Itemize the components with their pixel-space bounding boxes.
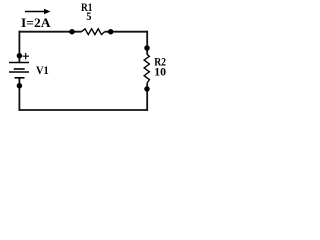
plate short bottom bbox=[15, 77, 25, 79]
resistor R2 bbox=[144, 54, 149, 83]
plus sign bbox=[23, 53, 30, 60]
node dot R1 left bbox=[69, 29, 75, 35]
resistor R1 bbox=[82, 29, 105, 35]
wire right upper bbox=[146, 31, 148, 55]
node dot R1 right bbox=[108, 29, 114, 35]
plate short bbox=[14, 68, 25, 70]
plate long top bbox=[9, 62, 29, 64]
plate long bbox=[9, 71, 29, 73]
svg-text:5: 5 bbox=[86, 9, 91, 23]
node dot battery bottom bbox=[17, 83, 23, 89]
wire bottom bbox=[19, 109, 149, 111]
wire top-left segment bbox=[19, 31, 82, 33]
node dot R2 bottom bbox=[144, 86, 150, 92]
current arrow I bbox=[25, 9, 51, 14]
node dot R2 top bbox=[144, 45, 150, 51]
battery V1 bbox=[9, 53, 29, 78]
wire right lower bbox=[146, 83, 148, 111]
svg-text:V1: V1 bbox=[36, 63, 49, 77]
svg-text:I=2A: I=2A bbox=[21, 16, 51, 30]
wire left lower bbox=[18, 78, 20, 111]
wire left upper bbox=[18, 31, 20, 62]
svg-text:10: 10 bbox=[154, 65, 166, 79]
wire top-right segment bbox=[105, 31, 148, 33]
node dot battery top bbox=[17, 53, 23, 59]
